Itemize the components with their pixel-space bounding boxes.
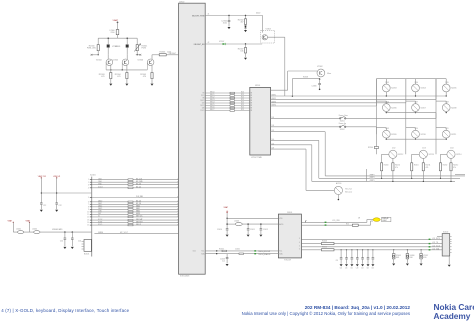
svg-text:100n: 100n xyxy=(223,23,227,25)
svg-text:144: 144 xyxy=(272,143,275,145)
svg-text:1: 1 xyxy=(88,179,89,181)
svg-text:KBLIGHT: KBLIGHT xyxy=(169,53,176,55)
svg-text:2208: 2208 xyxy=(445,102,449,104)
svg-text:R2403: R2403 xyxy=(322,240,327,242)
svg-text:95.5: 95.5 xyxy=(201,95,204,97)
svg-text:15: 15 xyxy=(87,225,89,227)
svg-text:TOUCH: TOUCH xyxy=(284,260,291,262)
svg-text:SCL: SCL xyxy=(279,251,282,253)
svg-text:L2402: L2402 xyxy=(32,228,37,230)
svg-text:KBR2: KBR2 xyxy=(272,98,276,100)
svg-text:LCD_SCLK: LCD_SCLK xyxy=(432,245,441,247)
svg-text:R23: R23 xyxy=(241,109,244,111)
svg-text:PDM: PDM xyxy=(142,48,147,50)
svg-text:2210: 2210 xyxy=(415,128,419,130)
svg-text:L2403: L2403 xyxy=(234,221,239,223)
svg-text:3: 3 xyxy=(88,184,89,186)
svg-text:V2302: V2302 xyxy=(317,66,323,68)
svg-text:R23: R23 xyxy=(241,107,244,109)
svg-text:2213: 2213 xyxy=(422,148,426,150)
svg-text:6: 6 xyxy=(88,201,89,203)
svg-text:131: 131 xyxy=(272,130,275,132)
svg-text:R24: R24 xyxy=(346,223,349,225)
svg-text:47k: 47k xyxy=(395,167,398,169)
svg-text:7: 7 xyxy=(88,204,89,206)
svg-text:13: 13 xyxy=(87,220,89,222)
svg-text:KBLIGHT_PWM: KBLIGHT_PWM xyxy=(192,15,205,17)
svg-text:SIM_CLK: SIM_CLK xyxy=(136,216,142,218)
svg-text:6: 6 xyxy=(299,248,300,250)
svg-text:C43: C43 xyxy=(356,267,359,269)
svg-text:R23: R23 xyxy=(241,104,244,106)
svg-text:98: 98 xyxy=(202,98,204,100)
svg-text:X2401: X2401 xyxy=(90,175,96,177)
svg-text:2: 2 xyxy=(88,182,89,184)
svg-text:V2301: V2301 xyxy=(115,46,121,48)
svg-text:2204: 2204 xyxy=(415,82,419,84)
svg-text:I2C1: I2C1 xyxy=(193,251,196,253)
svg-text:S2208: S2208 xyxy=(451,107,456,109)
svg-text:LCD_VDD: LCD_VDD xyxy=(332,220,341,222)
svg-text:2200: 2200 xyxy=(111,32,115,34)
svg-text:47k: 47k xyxy=(426,167,429,169)
svg-text:11: 11 xyxy=(87,214,89,216)
svg-text:2u2: 2u2 xyxy=(222,261,225,263)
svg-text:2211: 2211 xyxy=(445,128,448,130)
svg-text:108: 108 xyxy=(202,108,205,110)
svg-text:S2202: S2202 xyxy=(340,129,345,131)
svg-text:C46: C46 xyxy=(371,267,374,269)
svg-text:C22: C22 xyxy=(59,205,62,207)
svg-text:S2212: S2212 xyxy=(398,154,403,156)
svg-text:140: 140 xyxy=(272,139,275,141)
svg-text:R23: R23 xyxy=(241,97,244,99)
svg-text:VOUT: VOUT xyxy=(98,187,103,189)
svg-text:C24: C24 xyxy=(336,260,339,262)
svg-text:V2307: V2307 xyxy=(219,41,224,43)
svg-text:IN: IN xyxy=(251,98,253,100)
svg-text:202 RM-834 | Board: 3uq_20a: 202 RM-834 | Board: 3uq_20a | v1.0 | 20.… xyxy=(305,305,411,310)
svg-text:VBAT: VBAT xyxy=(113,19,119,22)
svg-text:X2402: X2402 xyxy=(443,232,448,234)
svg-text:4 (7) | X-GOLD, keyboard, Di: 4 (7) | X-GOLD, keyboard, Display Interf… xyxy=(1,308,129,313)
svg-text:SCL: SCL xyxy=(201,251,204,253)
svg-text:103: 103 xyxy=(202,103,205,105)
svg-text:DAT2: DAT2 xyxy=(98,205,102,208)
svg-text:PDM_LED: PDM_LED xyxy=(87,48,97,50)
svg-text:MC_D0: MC_D0 xyxy=(136,183,141,185)
svg-text:110.5: 110.5 xyxy=(200,110,204,112)
svg-text:MC_CMD: MC_CMD xyxy=(136,181,143,183)
svg-text:Vibra: Vibra xyxy=(327,73,331,75)
svg-text:SIM_IO: SIM_IO xyxy=(136,224,142,226)
svg-text:S2206: S2206 xyxy=(391,107,396,109)
svg-text:IN: IN xyxy=(251,100,253,102)
svg-text:R2200: R2200 xyxy=(384,165,389,167)
svg-text:126: 126 xyxy=(272,125,275,127)
svg-text:V2407: V2407 xyxy=(423,255,428,257)
svg-text:14: 14 xyxy=(87,222,89,224)
svg-text:C2410: C2410 xyxy=(217,229,222,231)
svg-text:Dome 4p: Dome 4p xyxy=(339,123,346,125)
svg-text:KBLIGHT_EN: KBLIGHT_EN xyxy=(194,44,205,46)
svg-text:LCD_RSTX: LCD_RSTX xyxy=(432,238,440,240)
svg-text:S2210: S2210 xyxy=(421,134,426,136)
svg-text:R23: R23 xyxy=(241,92,244,94)
svg-text:C41: C41 xyxy=(345,267,348,269)
svg-text:12: 12 xyxy=(87,217,89,219)
svg-text:MC_D1: MC_D1 xyxy=(136,187,141,189)
svg-text:IN: IN xyxy=(251,103,253,105)
svg-text:V2405: V2405 xyxy=(396,255,401,257)
svg-text:149: 149 xyxy=(272,148,275,150)
svg-text:S2209: S2209 xyxy=(391,134,396,136)
svg-text:C2306: C2306 xyxy=(312,86,317,88)
svg-text:KBR2: KBR2 xyxy=(370,180,374,182)
svg-text:TOUCH_SCL 1V8: TOUCH_SCL 1V8 xyxy=(258,251,270,253)
svg-text:10: 10 xyxy=(87,212,89,214)
svg-text:4: 4 xyxy=(88,187,89,189)
svg-text:L2401: L2401 xyxy=(16,228,21,230)
svg-text:KBD0: KBD0 xyxy=(136,206,140,208)
svg-text:C22: C22 xyxy=(43,205,46,207)
svg-text:MC_D3: MC_D3 xyxy=(136,203,141,205)
svg-text:42: 42 xyxy=(208,42,210,44)
svg-text:2214: 2214 xyxy=(450,148,454,150)
svg-text:4k7: 4k7 xyxy=(240,22,243,24)
svg-text:KBD2: KBD2 xyxy=(136,211,140,213)
svg-text:KBR3: KBR3 xyxy=(272,101,276,103)
svg-text:S2213: S2213 xyxy=(429,154,434,156)
svg-text:S2203: S2203 xyxy=(391,88,396,90)
svg-text:R23: R23 xyxy=(241,99,244,101)
svg-text:2205: 2205 xyxy=(445,82,449,84)
svg-text:C24: C24 xyxy=(60,241,63,243)
svg-text:C2412: C2412 xyxy=(263,229,268,231)
svg-text:5: 5 xyxy=(88,197,89,199)
svg-text:4: 4 xyxy=(299,242,300,244)
svg-text:Dome Over: Dome Over xyxy=(339,115,349,117)
svg-text:D2401: D2401 xyxy=(287,212,292,214)
svg-text:C44: C44 xyxy=(361,267,364,269)
svg-text:C2401: C2401 xyxy=(235,248,240,250)
svg-text:Academy: Academy xyxy=(434,311,471,321)
svg-text:VMEM: VMEM xyxy=(98,232,104,234)
svg-text:C42: C42 xyxy=(350,267,353,269)
svg-text:IN: IN xyxy=(251,110,253,112)
svg-text:KBR1: KBR1 xyxy=(272,95,276,97)
svg-text:V2304: V2304 xyxy=(96,60,103,62)
svg-text:118: 118 xyxy=(272,117,275,119)
svg-text:S2204: S2204 xyxy=(421,88,426,90)
svg-text:47k: 47k xyxy=(453,167,456,169)
svg-text:S2211: S2211 xyxy=(451,134,456,136)
svg-text:C45: C45 xyxy=(367,267,370,269)
svg-text:KBR4: KBR4 xyxy=(272,105,276,107)
svg-text:5: 5 xyxy=(299,245,300,247)
svg-text:IN: IN xyxy=(251,93,253,95)
svg-text:470: 470 xyxy=(101,76,104,78)
svg-text:MC_CLK: MC_CLK xyxy=(136,178,142,180)
svg-text:LIGHT: LIGHT xyxy=(382,220,387,222)
svg-text:Nokia Internal Use only | Co: Nokia Internal Use only | Copyright © 20… xyxy=(242,311,410,316)
svg-text:S2214: S2214 xyxy=(456,154,461,156)
svg-text:R2306: R2306 xyxy=(160,52,166,54)
svg-text:105.5: 105.5 xyxy=(200,105,204,107)
svg-text:Not asse: Not asse xyxy=(345,190,352,193)
svg-text:100.5: 100.5 xyxy=(200,100,204,102)
svg-text:V2406: V2406 xyxy=(410,255,415,257)
svg-text:D2800: D2800 xyxy=(179,1,184,3)
svg-text:CLK_26M: CLK_26M xyxy=(136,196,143,198)
svg-text:2212: 2212 xyxy=(392,148,396,150)
svg-text:V2306: V2306 xyxy=(137,60,143,62)
svg-text:LCD_TE: LCD_TE xyxy=(432,242,438,244)
svg-text:V2303: V2303 xyxy=(266,29,271,31)
svg-text:R2201: R2201 xyxy=(414,165,419,167)
svg-text:MC_VOLT: MC_VOLT xyxy=(120,232,128,234)
svg-text:SIM_RST: SIM_RST xyxy=(136,221,143,223)
svg-text:470: 470 xyxy=(117,76,120,78)
svg-text:A2200: A2200 xyxy=(336,182,341,185)
svg-text:41: 41 xyxy=(208,13,210,15)
svg-text:R23: R23 xyxy=(241,102,244,104)
svg-text:S2207: S2207 xyxy=(421,107,426,109)
svg-text:IN: IN xyxy=(251,105,253,107)
svg-text:S2205: S2205 xyxy=(451,88,456,90)
svg-text:9: 9 xyxy=(88,209,89,211)
svg-text:KBR1: KBR1 xyxy=(370,177,374,179)
svg-text:IN: IN xyxy=(251,108,253,110)
svg-text:R2202: R2202 xyxy=(443,165,448,167)
svg-text:2203: 2203 xyxy=(385,82,389,84)
svg-text:0402: 0402 xyxy=(256,12,260,14)
svg-text:KBC7: KBC7 xyxy=(210,109,214,111)
svg-text:R23: R23 xyxy=(241,94,244,96)
svg-text:C2411: C2411 xyxy=(250,229,255,231)
svg-text:B2401: B2401 xyxy=(84,254,89,256)
svg-text:MC_D2: MC_D2 xyxy=(136,201,141,203)
svg-text:LP5527TME: LP5527TME xyxy=(251,157,262,159)
svg-text:10k: 10k xyxy=(240,51,243,53)
svg-text:IN: IN xyxy=(251,95,253,97)
svg-text:3: 3 xyxy=(299,238,300,240)
svg-text:2206: 2206 xyxy=(385,102,389,104)
svg-text:8: 8 xyxy=(88,206,89,208)
svg-text:R2308: R2308 xyxy=(303,77,308,79)
svg-text:R2404: R2404 xyxy=(322,247,327,249)
svg-text:C40: C40 xyxy=(340,267,343,269)
svg-text:KBD1: KBD1 xyxy=(136,208,140,210)
svg-text:SDIO: SDIO xyxy=(98,224,103,226)
svg-text:2209: 2209 xyxy=(385,128,389,130)
svg-text:470: 470 xyxy=(143,76,146,78)
svg-text:GND1: GND1 xyxy=(136,213,140,215)
svg-text:VMMC 2V9: VMMC 2V9 xyxy=(38,176,46,178)
svg-text:V2305: V2305 xyxy=(112,60,118,62)
svg-text:N2301: N2301 xyxy=(255,85,260,87)
svg-text:2207: 2207 xyxy=(415,102,419,104)
svg-text:C24: C24 xyxy=(78,241,81,243)
svg-text:XGOLD618: XGOLD618 xyxy=(180,276,189,278)
svg-text:R2204: R2204 xyxy=(368,147,373,149)
svg-text:KBR0: KBR0 xyxy=(370,175,374,177)
svg-text:VMEMCARD: VMEMCARD xyxy=(52,228,63,231)
svg-text:93: 93 xyxy=(202,93,204,95)
